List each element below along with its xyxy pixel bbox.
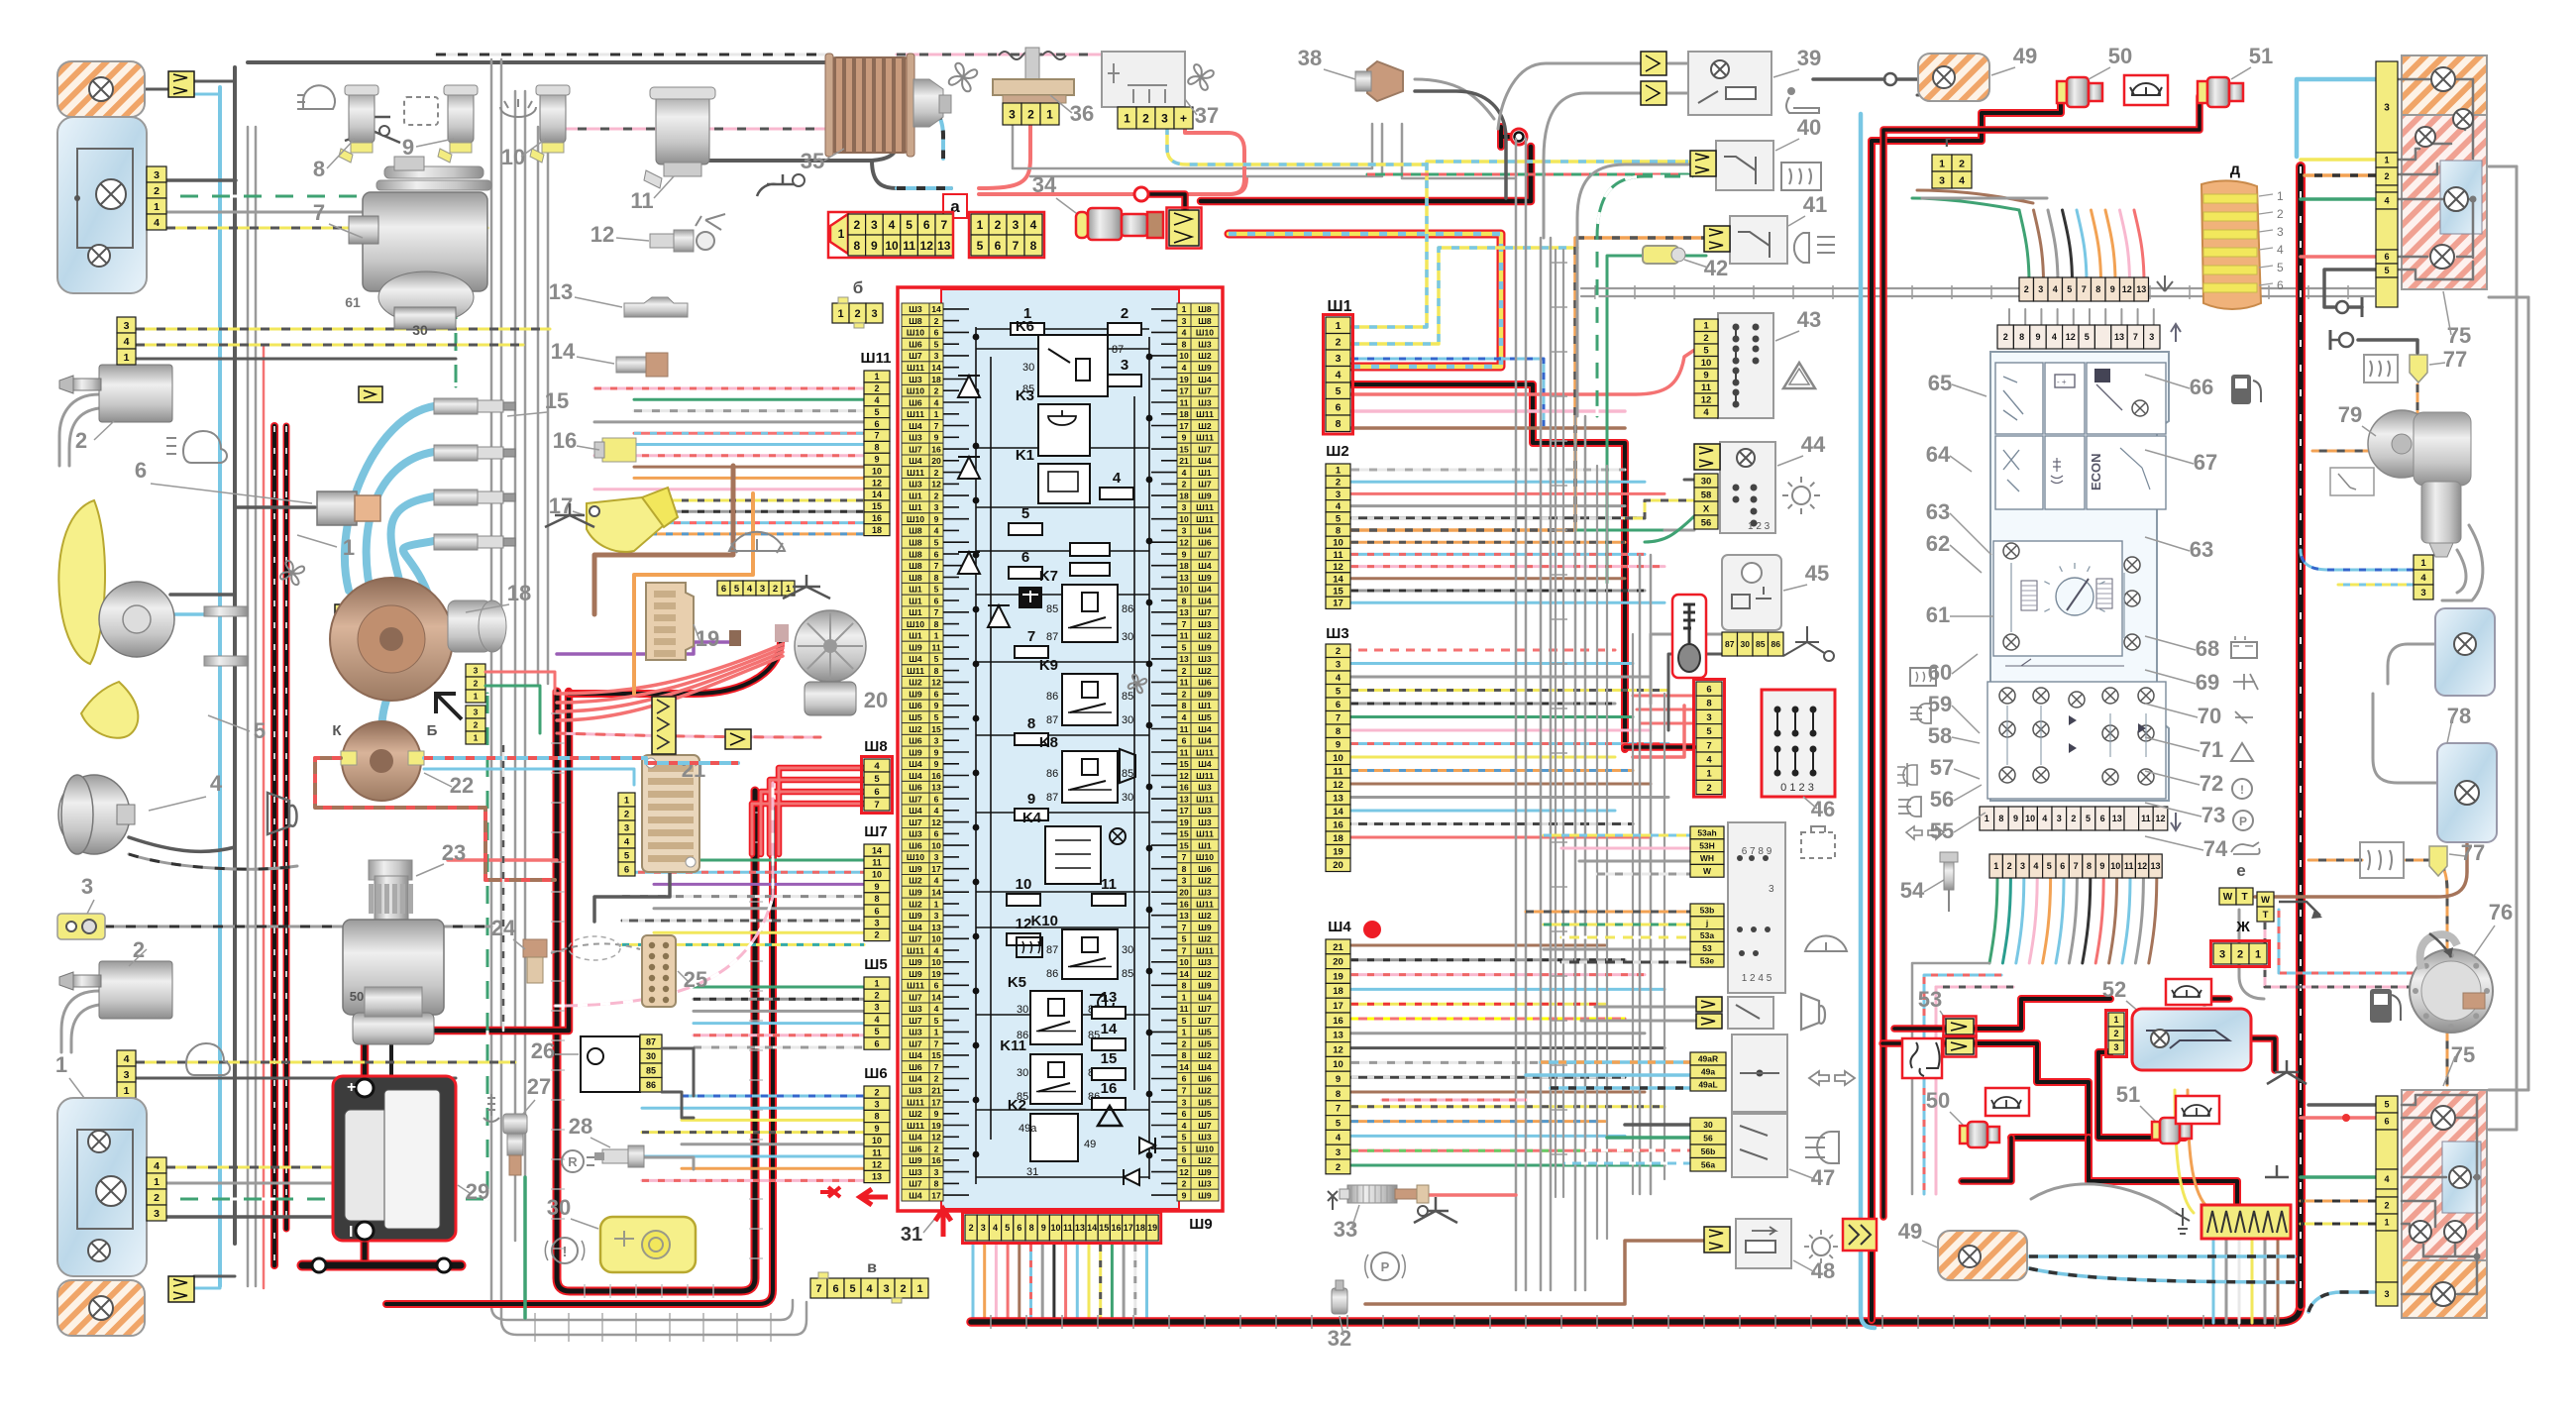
svg-text:Ш1: Ш1 <box>1198 701 1212 710</box>
svg-text:Ш11: Ш11 <box>861 350 892 367</box>
svg-text:2: 2 <box>853 218 860 232</box>
svg-text:85: 85 <box>1046 603 1058 615</box>
tail lamp unit 75 (top) <box>2402 55 2487 115</box>
svg-text:13: 13 <box>1179 654 1189 664</box>
svg-text:K7: K7 <box>1039 568 1058 585</box>
svg-text:11: 11 <box>872 858 882 868</box>
svg-text:1: 1 <box>2113 1015 2118 1025</box>
svg-text:Ш3: Ш3 <box>909 480 922 490</box>
svg-text:1: 1 <box>874 372 879 381</box>
svg-text:Ш2: Ш2 <box>1198 1050 1212 1060</box>
svg-text:2: 2 <box>900 1283 906 1295</box>
svg-text:1 2 3: 1 2 3 <box>1748 521 1771 532</box>
glow element 42 <box>1643 246 1678 264</box>
svg-text:4: 4 <box>874 761 880 772</box>
svg-text:K2: K2 <box>1008 1097 1026 1114</box>
svg-text:4: 4 <box>124 336 130 348</box>
svg-text:2: 2 <box>474 679 479 689</box>
svg-text:4: 4 <box>2042 814 2047 823</box>
svg-text:5: 5 <box>849 1283 855 1295</box>
svg-text:2: 2 <box>874 930 879 940</box>
svg-text:4: 4 <box>934 945 939 955</box>
warn triangle icon <box>1098 1106 1122 1126</box>
svg-text:5: 5 <box>1336 687 1342 698</box>
svg-text:21: 21 <box>1179 456 1189 466</box>
svg-text:Ш1: Ш1 <box>909 607 922 617</box>
svg-text:5: 5 <box>2384 1100 2389 1110</box>
svg-text:3: 3 <box>1769 884 1774 895</box>
ground at blower <box>757 174 799 196</box>
connector 36 <box>1003 103 1021 125</box>
connector row (radio) <box>2019 277 2034 301</box>
ground at 52 <box>2267 1060 2307 1084</box>
svg-text:14: 14 <box>1179 1062 1189 1072</box>
svg-text:4: 4 <box>874 1015 879 1025</box>
svg-text:12: 12 <box>1179 771 1189 781</box>
svg-text:86: 86 <box>1122 603 1133 615</box>
svg-text:50: 50 <box>350 989 364 1004</box>
svg-text:4: 4 <box>2052 332 2057 342</box>
svg-text:87: 87 <box>1046 792 1058 804</box>
bulb 51 (top) <box>2198 77 2243 107</box>
svg-text:40: 40 <box>1797 115 1821 140</box>
svg-text:Ш7: Ш7 <box>1198 1121 1212 1131</box>
svg-text:7: 7 <box>1182 945 1187 955</box>
wire: power pair to ignition switch <box>1351 384 1625 749</box>
77 bottom icon <box>2360 842 2404 878</box>
svg-text:в: в <box>867 1259 877 1276</box>
svg-text:30: 30 <box>1017 1004 1028 1016</box>
svg-text:Ш1: Ш1 <box>909 490 922 500</box>
svg-text:12: 12 <box>872 478 882 488</box>
svg-text:Ш2: Ш2 <box>909 1109 922 1119</box>
svg-text:13: 13 <box>1179 794 1189 804</box>
svg-text:Ш7: Ш7 <box>909 1179 922 1189</box>
lamp unit 1 (bottom turn signal) <box>57 1280 145 1336</box>
svg-text:18: 18 <box>1333 833 1343 844</box>
svg-text:51: 51 <box>2116 1082 2140 1107</box>
svg-text:11: 11 <box>630 188 653 213</box>
svg-text:4: 4 <box>874 395 879 405</box>
svg-text:12: 12 <box>1016 916 1032 932</box>
fuse 5 <box>1009 523 1042 535</box>
brightness icon 48 <box>1812 1238 1830 1255</box>
svg-text:7: 7 <box>2133 332 2138 342</box>
svg-text:Ш4: Ш4 <box>909 1050 922 1060</box>
fan icon small <box>280 561 304 585</box>
svg-text:5: 5 <box>1703 346 1709 357</box>
svg-text:13: 13 <box>931 923 941 932</box>
svg-text:2: 2 <box>969 1223 974 1233</box>
wire: top right short stub <box>1917 94 1970 97</box>
svg-text:Ш2: Ш2 <box>1326 443 1348 460</box>
svg-text:Ш7: Ш7 <box>909 794 922 804</box>
svg-text:P: P <box>1381 1259 1390 1274</box>
svg-text:2: 2 <box>874 383 879 393</box>
svg-text:Ш11: Ш11 <box>1196 502 1214 512</box>
svg-text:Ш9: Ш9 <box>1198 923 1212 932</box>
svg-text:6: 6 <box>874 419 879 429</box>
svg-text:9: 9 <box>934 701 939 710</box>
pump 11 <box>656 91 709 164</box>
svg-text:Ш7: Ш7 <box>909 817 922 827</box>
svg-text:4: 4 <box>1959 174 1965 186</box>
svg-text:Ш9: Ш9 <box>909 969 922 979</box>
svg-text:24: 24 <box>491 916 516 940</box>
svg-text:30: 30 <box>646 1051 656 1061</box>
wire: lamp 52 harness <box>1976 999 2110 1029</box>
svg-text:19: 19 <box>931 1121 941 1131</box>
svg-text:58: 58 <box>1928 723 1952 748</box>
svg-text:2: 2 <box>934 490 939 500</box>
wire: module 21 black <box>594 872 670 922</box>
svg-text:12: 12 <box>2137 861 2147 871</box>
svg-text:10: 10 <box>1179 585 1189 595</box>
wire: left cyan trunk <box>218 87 222 1286</box>
node: terminal 34 <box>1501 127 1510 147</box>
wire: sensor 28 wires <box>642 1157 694 1169</box>
connector turn pins <box>1690 1052 1726 1065</box>
svg-text:8: 8 <box>874 894 879 904</box>
svg-text:15: 15 <box>1179 829 1189 839</box>
lamp internal wiring 75 bottom <box>2402 1095 2477 1294</box>
wire: Ш3 elbows to relay 45/46 <box>1651 634 1722 704</box>
svg-text:2: 2 <box>1703 333 1708 344</box>
svg-text:2: 2 <box>854 308 860 320</box>
svg-text:2: 2 <box>1182 1179 1187 1189</box>
wire: Ш1 red group <box>1351 349 1696 394</box>
lamp icon K4 <box>1110 828 1126 844</box>
svg-text:Ш9: Ш9 <box>909 911 922 921</box>
svg-text:19: 19 <box>1179 375 1189 384</box>
svg-text:30: 30 <box>1022 362 1034 374</box>
svg-text:5: 5 <box>1336 513 1342 524</box>
svg-text:18: 18 <box>507 581 531 605</box>
svg-text:Ш5: Ш5 <box>1198 1028 1212 1037</box>
column switch 47 (wiper group) <box>1728 822 1785 993</box>
svg-text:3: 3 <box>1013 218 1020 232</box>
svg-text:Ш7: Ш7 <box>1198 607 1212 617</box>
icon lamp 50b <box>1986 1088 2029 1116</box>
distributor 18 <box>330 578 453 701</box>
svg-text:Ш11: Ш11 <box>1196 771 1214 781</box>
svg-text:1: 1 <box>1985 814 1989 823</box>
wire: 75 bottom pin3 cyan <box>2308 1292 2374 1312</box>
svg-text:5: 5 <box>2277 261 2284 274</box>
wire: left gray pair trunk <box>247 127 250 1286</box>
cluster battery cell <box>2045 363 2085 434</box>
svg-text:Ш9: Ш9 <box>1198 363 1212 373</box>
svg-text:10: 10 <box>931 840 941 850</box>
relay 26 <box>581 1036 640 1092</box>
svg-text:2: 2 <box>154 1192 160 1204</box>
svg-text:3: 3 <box>1939 174 1945 186</box>
svg-text:K11: K11 <box>1000 1037 1026 1054</box>
svg-text:3: 3 <box>2038 284 2043 294</box>
svg-text:Ш9: Ш9 <box>1198 690 1212 700</box>
svg-text:3: 3 <box>2149 332 2154 342</box>
svg-text:1: 1 <box>1182 1028 1187 1037</box>
relay K8 <box>1062 751 1118 803</box>
svg-text:Ш4: Ш4 <box>909 654 922 664</box>
svg-text:10: 10 <box>1333 538 1343 549</box>
svg-text:+: + <box>347 1079 356 1096</box>
svg-text:7: 7 <box>313 200 325 225</box>
svg-text:Ш7: Ш7 <box>909 1016 922 1026</box>
svg-text:15: 15 <box>1179 759 1189 769</box>
svg-text:Ш3: Ш3 <box>909 375 922 384</box>
svg-text:11: 11 <box>2124 861 2134 871</box>
svg-text:1: 1 <box>1182 992 1187 1002</box>
svg-text:Ш6: Ш6 <box>909 340 922 350</box>
svg-text:10: 10 <box>1016 876 1032 893</box>
svg-text:19: 19 <box>1179 817 1189 827</box>
svg-text:31: 31 <box>1026 1166 1038 1178</box>
svg-text:53: 53 <box>1702 943 1712 953</box>
svg-text:8: 8 <box>1182 864 1187 874</box>
svg-text:10: 10 <box>1701 358 1712 369</box>
svg-text:35: 35 <box>801 149 824 173</box>
svg-text:26: 26 <box>531 1038 555 1063</box>
svg-text:Б: Б <box>427 722 438 739</box>
svg-text:73: 73 <box>2201 803 2225 827</box>
connector pins of headlamp 1 <box>147 166 166 182</box>
node: ground top-left <box>345 117 400 143</box>
svg-text:4: 4 <box>934 397 939 407</box>
svg-text:13: 13 <box>1075 1223 1085 1233</box>
sun icon <box>1792 487 1810 504</box>
svg-text:7: 7 <box>1182 619 1187 629</box>
fuse 4 <box>1100 488 1133 499</box>
svg-text:37: 37 <box>1195 103 1219 128</box>
wire: bottom headlight harness <box>166 1166 456 1169</box>
svg-text:Ш5: Ш5 <box>864 956 887 973</box>
svg-text:3: 3 <box>154 1208 160 1220</box>
wire: bottom washer harness <box>136 1061 515 1064</box>
svg-text:17: 17 <box>1179 386 1189 396</box>
fog icon <box>183 431 227 463</box>
svg-text:8: 8 <box>874 443 879 453</box>
handbrake sensor 32 <box>1371 1253 1399 1280</box>
svg-text:Ш4: Ш4 <box>1198 375 1212 384</box>
wire: battery minus cable <box>361 1237 370 1262</box>
svg-text:5: 5 <box>2086 814 2091 823</box>
svg-text:50: 50 <box>2108 44 2132 68</box>
solenoid 10 <box>540 91 566 143</box>
svg-text:K1: K1 <box>1016 447 1034 464</box>
sensor 16 <box>602 438 636 462</box>
cluster box 65 <box>1995 363 2043 434</box>
svg-text:10: 10 <box>2025 814 2035 823</box>
connector pins bottom headlamp <box>147 1157 166 1173</box>
svg-text:3: 3 <box>981 1223 986 1233</box>
svg-text:j: j <box>1705 918 1708 927</box>
wire: handbrake pink dash <box>1382 1099 1526 1102</box>
svg-text:Ш9: Ш9 <box>1189 1216 1212 1233</box>
svg-text:Ш3: Ш3 <box>1198 397 1212 407</box>
svg-text:6: 6 <box>934 328 939 338</box>
svg-text:13: 13 <box>1179 607 1189 617</box>
wire: sensor 3 lead <box>104 926 491 928</box>
svg-text:7: 7 <box>1336 1104 1341 1115</box>
relay K6 <box>1038 335 1108 396</box>
svg-text:11: 11 <box>903 239 915 253</box>
wire: light switch feeds <box>1625 1123 1694 1127</box>
svg-text:4: 4 <box>154 1160 160 1172</box>
bus tick marks <box>990 1315 992 1329</box>
svg-text:1: 1 <box>874 978 879 988</box>
svg-text:2: 2 <box>1027 107 1034 121</box>
wire: 49 gray loop <box>2031 1184 2176 1213</box>
svg-text:Ш9: Ш9 <box>1198 573 1212 583</box>
svg-text:12: 12 <box>931 817 941 827</box>
wire: green from 42 <box>1607 256 1645 583</box>
svg-text:6: 6 <box>934 549 939 559</box>
svg-text:4: 4 <box>210 771 223 796</box>
svg-text:Ш8: Ш8 <box>909 538 922 548</box>
wire: right cyan trunk <box>1861 114 1875 1328</box>
svg-text:17: 17 <box>931 1190 941 1200</box>
svg-text:8: 8 <box>1182 1050 1187 1060</box>
svg-text:67: 67 <box>2194 450 2217 475</box>
cluster coolant cell <box>2045 436 2085 509</box>
svg-text:9: 9 <box>934 514 939 524</box>
wire: 49 top link <box>1944 78 1986 81</box>
svg-text:Ш9: Ш9 <box>909 690 922 700</box>
svg-text:2: 2 <box>1706 783 1711 794</box>
svg-text:Ш3: Ш3 <box>1198 888 1212 898</box>
svg-text:5: 5 <box>1706 726 1712 737</box>
svg-text:1: 1 <box>154 201 160 213</box>
svg-text:Ш3: Ш3 <box>909 1167 922 1177</box>
svg-text:4: 4 <box>993 1223 998 1233</box>
svg-text:Ш1: Ш1 <box>909 502 922 512</box>
svg-text:8: 8 <box>1706 699 1711 709</box>
svg-text:5: 5 <box>874 1027 879 1036</box>
wiper icon 47 <box>1805 936 1847 951</box>
svg-text:49a: 49a <box>1701 1067 1715 1077</box>
svg-text:6: 6 <box>135 458 147 483</box>
svg-text:5: 5 <box>734 584 740 595</box>
trunk tick marks <box>584 1284 586 1298</box>
svg-text:64: 64 <box>1926 442 1951 467</box>
svg-text:Ш5: Ш5 <box>1198 1097 1212 1107</box>
svg-text:13: 13 <box>872 1172 882 1182</box>
connector 75 bottom pins <box>2376 1096 2398 1113</box>
svg-text:Ш4: Ш4 <box>909 456 922 466</box>
svg-text:Ш9: Ш9 <box>1198 1190 1212 1200</box>
svg-text:11: 11 <box>1179 678 1188 688</box>
svg-text:Ш11: Ш11 <box>907 1097 924 1107</box>
wire: 75 bottom feeds <box>2308 1103 2376 1107</box>
svg-text:34: 34 <box>1032 172 1057 197</box>
svg-text:6: 6 <box>2384 252 2389 262</box>
svg-text:12: 12 <box>931 1133 941 1143</box>
svg-text:18: 18 <box>872 525 882 535</box>
svg-text:30: 30 <box>1741 639 1751 649</box>
svg-text:17: 17 <box>931 864 941 874</box>
connector 47a pins <box>1690 826 1724 839</box>
svg-text:Ш8: Ш8 <box>1198 304 1212 314</box>
svg-text:б: б <box>853 278 864 297</box>
svg-text:12: 12 <box>931 678 941 688</box>
svg-text:3: 3 <box>2384 103 2390 114</box>
svg-text:13: 13 <box>1101 989 1118 1006</box>
svg-text:13: 13 <box>1179 911 1189 921</box>
rear wiper motor 79 <box>2368 410 2435 478</box>
svg-text:WH: WH <box>1700 853 1714 863</box>
svg-text:14: 14 <box>1333 807 1343 817</box>
svg-text:1: 1 <box>2384 1218 2389 1228</box>
svg-text:6: 6 <box>923 218 930 232</box>
svg-text:7: 7 <box>1706 740 1711 751</box>
side repeater 49 (top) <box>1918 54 1989 101</box>
svg-text:11: 11 <box>2141 814 2151 823</box>
svg-text:4: 4 <box>934 1004 939 1014</box>
svg-text:43: 43 <box>1797 307 1821 332</box>
svg-text:6: 6 <box>721 584 726 595</box>
svg-text:11: 11 <box>1101 876 1117 893</box>
svg-text:85: 85 <box>1122 968 1133 980</box>
svg-text:2: 2 <box>1121 305 1128 322</box>
wire: 79 wiper leads <box>2442 525 2483 600</box>
fan 5 motor <box>99 582 174 657</box>
svg-text:14: 14 <box>1101 1021 1118 1037</box>
connector table a1 <box>830 214 848 254</box>
svg-text:Ш4: Ш4 <box>909 421 922 431</box>
svg-text:53H: 53H <box>1699 840 1715 850</box>
svg-text:20: 20 <box>1333 957 1343 968</box>
svg-text:8: 8 <box>1027 715 1035 732</box>
svg-text:Ш7: Ш7 <box>1198 1016 1212 1026</box>
wire: orange loop at fuse strip <box>2188 1090 2205 1205</box>
heater blower 35 <box>830 57 910 153</box>
relay K4 <box>1045 826 1101 884</box>
svg-text:9: 9 <box>1336 1074 1341 1085</box>
wire: bottom tree horizontal run <box>1912 963 1989 1194</box>
connector 4-3-1 (bottom) <box>117 1050 136 1066</box>
svg-text:Ш7: Ш7 <box>1198 444 1212 454</box>
svg-text:Ш2: Ш2 <box>909 899 922 909</box>
icon: headlight washer <box>297 85 335 109</box>
svg-text:г: г <box>1945 134 1952 151</box>
svg-text:5: 5 <box>874 774 880 785</box>
svg-text:6: 6 <box>934 596 939 605</box>
svg-text:9: 9 <box>2110 284 2115 294</box>
svg-text:53e: 53e <box>1700 956 1714 966</box>
wire: switch 40 leads <box>1577 164 1692 416</box>
connector 43 pins <box>1694 319 1718 332</box>
svg-text:Ш6: Ш6 <box>909 840 922 850</box>
svg-text:3: 3 <box>124 320 130 332</box>
svg-text:Ш11: Ш11 <box>907 981 924 991</box>
svg-text:Ш6: Ш6 <box>1198 1074 1212 1084</box>
svg-text:2: 2 <box>934 386 939 396</box>
svg-text:4: 4 <box>1336 673 1342 684</box>
svg-text:1: 1 <box>624 795 630 806</box>
svg-text:14: 14 <box>1087 1223 1097 1233</box>
svg-text:3: 3 <box>124 1069 130 1081</box>
svg-text:3: 3 <box>2113 1042 2118 1052</box>
svg-text:T: T <box>2241 892 2247 903</box>
svg-text:Ш8: Ш8 <box>909 573 922 583</box>
svg-text:Ш2: Ш2 <box>1198 1086 1212 1096</box>
relay K10 <box>1062 929 1118 979</box>
svg-text:1: 1 <box>2384 156 2389 165</box>
svg-text:14: 14 <box>1333 574 1343 585</box>
svg-text:58: 58 <box>1701 490 1712 500</box>
svg-text:7: 7 <box>874 431 879 441</box>
